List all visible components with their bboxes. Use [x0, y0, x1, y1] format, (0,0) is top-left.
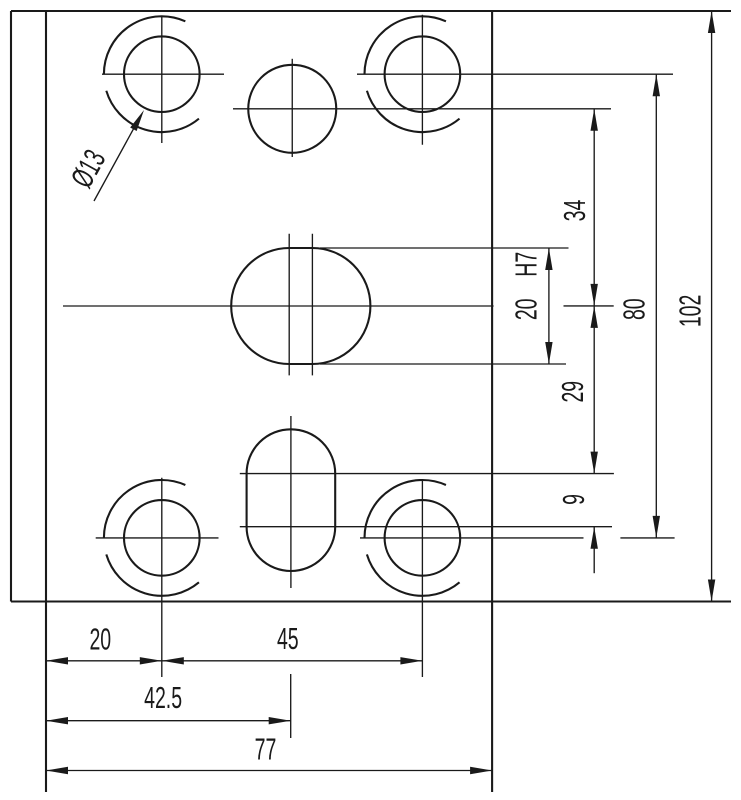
dim 9 lower arrow tail — [593, 527, 595, 573]
svg-text:77: 77 — [255, 733, 277, 767]
dim 45 arrow right — [400, 657, 422, 664]
bottom slot upper arc center line extended to dim 9 — [240, 473, 614, 475]
bottom slot vertical centerline — [290, 416, 292, 588]
dim 80 line — [655, 74, 657, 538]
hole bottom-right circle — [385, 500, 461, 576]
plate fold line left — [45, 11, 47, 792]
dim 20 line bottom — [46, 660, 162, 662]
hole top-right counterbore lower arc — [367, 91, 460, 132]
tick at 34/29 junction — [564, 305, 614, 307]
dim 42.5 arrow right — [269, 717, 291, 724]
hole top-left circle — [124, 36, 200, 112]
hole bottom-right centerline vertical extended to dim 45 — [421, 479, 423, 677]
svg-text:42.5: 42.5 — [144, 681, 182, 715]
hole bottom-left circle — [124, 500, 200, 576]
dim 20H7 arrow down — [545, 342, 552, 364]
plate top edge — [11, 10, 731, 12]
dim 29 arrow down — [591, 452, 598, 474]
dim 102 arrow down — [708, 580, 715, 602]
svg-text:45: 45 — [277, 623, 299, 657]
center slot horizontal centerline — [63, 305, 494, 307]
dim 77 arrow right — [470, 767, 492, 774]
dim 20H7 arrow up — [545, 248, 552, 270]
hole top-left centerline vertical — [161, 16, 163, 143]
dim 77 arrow left — [46, 767, 68, 774]
leader line for hole label — [94, 117, 140, 201]
hole bottom-left counterbore lower arc — [106, 554, 199, 595]
extension line 20H7 bottom — [320, 363, 566, 365]
dim 42.5 line — [46, 720, 291, 722]
center slot right arc center vertical line — [311, 234, 313, 376]
hole bottom-right centerline horizontal — [360, 537, 584, 539]
hole top-left counterbore lower arc — [106, 91, 199, 132]
dim 77 line — [46, 770, 492, 772]
svg-text:80: 80 — [618, 298, 652, 320]
dim 34 arrow down — [591, 284, 598, 306]
hole top-right centerline horizontal extended to dim 80 — [357, 73, 673, 75]
circle top-middle centerline horizontal extended to dim 34 — [233, 108, 611, 110]
dim 45 line — [162, 660, 423, 662]
svg-text:29: 29 — [557, 381, 591, 403]
svg-text:20 H7: 20 H7 — [510, 252, 544, 320]
bottom slot obround — [247, 429, 336, 571]
circle top-middle centerline vertical — [291, 59, 293, 157]
extension line 42.5 — [290, 674, 292, 738]
dim 20 arrow right — [140, 657, 162, 664]
center slot left arc center vertical line — [288, 234, 290, 376]
dim 29 arrow up — [591, 306, 598, 328]
extension line 20H7 top — [320, 247, 569, 249]
svg-text:20: 20 — [89, 623, 111, 657]
hole top-right centerline vertical — [421, 15, 423, 145]
hole top-right circle — [385, 36, 461, 112]
dim 42.5 arrow left — [46, 717, 68, 724]
dim 20 arrow left — [46, 657, 68, 664]
dim 102 arrow up — [708, 11, 715, 33]
svg-text:9: 9 — [558, 494, 592, 505]
hole top-left counterbore upper arc — [104, 16, 185, 74]
dim 34 arrow up — [591, 109, 598, 131]
bottom slot lower arc center line extended — [240, 526, 612, 528]
leader arrowhead — [130, 110, 144, 131]
dim 102 line — [711, 11, 713, 602]
dim 20H7 line — [548, 248, 550, 364]
dim 29 line — [593, 306, 595, 474]
center slot obround 20H7 — [231, 248, 370, 364]
hole top-right counterbore upper arc — [365, 16, 446, 74]
hole bottom-right counterbore upper arc — [365, 480, 446, 538]
dim 9 arrow up — [591, 527, 598, 549]
plate bottom edge — [11, 600, 731, 602]
svg-text:34: 34 — [559, 200, 593, 222]
hole top-left centerline horizontal — [102, 73, 224, 75]
dim 45 arrow left — [162, 657, 184, 664]
circle top-middle — [248, 65, 336, 153]
dim 80 arrow up — [653, 74, 660, 96]
hole bottom-right centerline horizontal segment at dim 80 arrow — [620, 537, 674, 539]
dim 80 arrow down — [653, 516, 660, 538]
plate right edge — [491, 11, 493, 792]
dim 34 line — [593, 109, 595, 306]
hole bottom-right counterbore lower arc — [367, 554, 460, 595]
plate left edge — [10, 11, 12, 602]
hole bottom-left counterbore upper arc — [104, 480, 185, 538]
hole bottom-left centerline vertical extended to dim 20/45 — [161, 478, 163, 677]
hole bottom-left centerline horizontal — [96, 537, 219, 539]
svg-text:102: 102 — [674, 295, 708, 328]
